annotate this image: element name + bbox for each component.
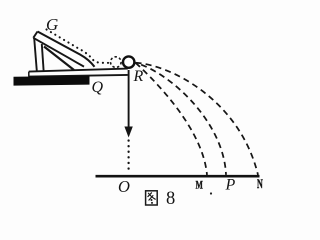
svg-text:O: O (118, 177, 130, 196)
ramp top edge (38, 32, 95, 67)
ground line (96, 175, 260, 178)
ball at R (123, 56, 134, 67)
trajectory 2 (to P) (136, 63, 226, 175)
plumb dotted (127, 141, 129, 172)
ramp bottom edge (33, 38, 84, 67)
trajectory 1 (to M) (136, 63, 207, 175)
support post (34, 38, 43, 71)
svg-text:M: M (196, 177, 203, 191)
svg-text:8: 8 (166, 189, 175, 209)
svg-text:N: N (257, 177, 263, 191)
svg-text:R: R (133, 68, 144, 85)
ghost ball (dashed circle) (111, 57, 122, 68)
svg-text:Q: Q (92, 79, 104, 96)
base plate bottom line (29, 75, 128, 77)
base plate top line (29, 69, 128, 72)
dot after M (210, 192, 212, 194)
ball path dots on ramp (47, 30, 110, 63)
caption hanzi tu (figure) drawn (146, 191, 158, 205)
ramp end face (33, 32, 37, 38)
svg-text:P: P (225, 177, 236, 194)
plumb line solid (128, 70, 130, 128)
table black bar (14, 76, 90, 86)
plumb arrowhead (124, 127, 132, 138)
trajectory 3 (to N) (136, 63, 258, 175)
support brace (44, 47, 74, 71)
base plate left cap (28, 72, 30, 77)
svg-text:G: G (46, 15, 58, 34)
